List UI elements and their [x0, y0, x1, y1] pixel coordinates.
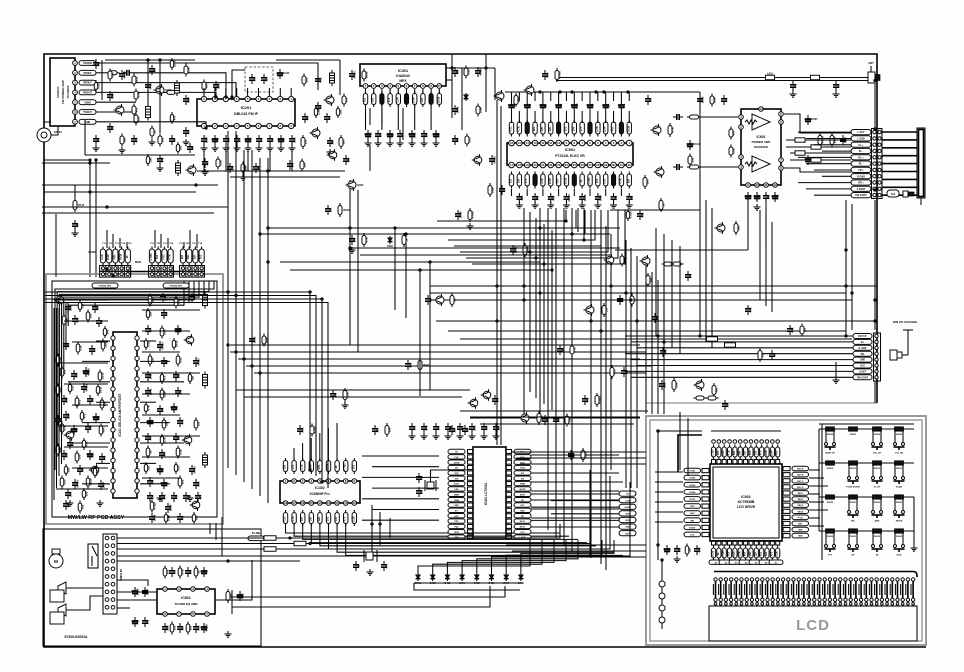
ground FM b: [159, 165, 161, 168]
wire IC402 net 3: [303, 524, 578, 539]
svg-text:XC6N99F PLL: XC6N99F PLL: [310, 492, 331, 496]
wire IC101 right pin link 8: [140, 483, 170, 485]
svg-text:4.7K: 4.7K: [135, 137, 139, 143]
svg-text:11: 11: [344, 501, 347, 505]
bus wire v16: [610, 234, 612, 470]
wire tuner up 1: [106, 230, 108, 248]
net label IC401 L15: [448, 524, 465, 528]
resistor R432: [582, 448, 584, 462]
svg-text:1K: 1K: [357, 564, 361, 567]
resistor RN31 LCD conn: [871, 581, 873, 598]
svg-text:13: 13: [327, 501, 331, 505]
capacitor C510 above IC501: [589, 101, 591, 105]
junction dot: [259, 233, 262, 236]
capacitor C119 MW/LW: [73, 370, 75, 374]
svg-text:SEG1: SEG1: [797, 493, 803, 495]
resistor R407 above IC402: [345, 458, 347, 474]
transistor Q502: [656, 168, 664, 176]
svg-text:DBL016 FM IP: DBL016 FM IP: [234, 112, 259, 116]
resistor R299 MW extra: [193, 512, 195, 524]
svg-text:47K: 47K: [731, 130, 735, 135]
resistor R285 MW extra: [189, 372, 191, 384]
pin b11 CN601: [878, 193, 881, 196]
svg-text:100: 100: [176, 299, 180, 304]
svg-text:102: 102: [509, 178, 513, 183]
pin b6 CN801: [111, 575, 115, 579]
wire bottom bus 3: [117, 476, 610, 549]
svg-text:2.2K: 2.2K: [78, 345, 82, 351]
svg-text:TWOOK: TWOOK: [83, 62, 92, 65]
pin LCD conn top 21: [818, 578, 821, 581]
wire CN602 net 3: [637, 347, 853, 349]
bus wire extra v3: [405, 234, 407, 318]
wire CN601 feed 1: [798, 131, 851, 133]
wire IC201 top pin 8: [279, 88, 281, 96]
svg-text:473: 473: [689, 273, 693, 278]
net label IC401 L6: [448, 476, 465, 480]
wire out rail3: [790, 152, 851, 154]
resistor R603: [730, 127, 732, 140]
svg-text:13: 13: [533, 141, 537, 145]
wire IC601 outL: [784, 114, 851, 133]
capacitor C443: [555, 415, 557, 419]
ground below IC201 p2: [225, 145, 227, 148]
svg-text:47K: 47K: [420, 97, 424, 102]
bus wire tuner nest 7: [68, 281, 184, 326]
pin 7 IC201 top: [223, 96, 228, 101]
module box MW/LW RF PCB ASSY: [46, 274, 223, 524]
net label IC901 R3: [792, 478, 809, 483]
svg-text:DIN CD CHANGE: DIN CD CHANGE: [893, 320, 917, 324]
pin LCD conn bottom 4: [730, 603, 733, 606]
resistor R903 above IC901: [729, 445, 731, 460]
bus wire extra h2: [280, 261, 540, 263]
wire CN602 stem down: [874, 381, 876, 403]
resistor R802 above IC801: [179, 566, 181, 579]
net label IC401 R3: [514, 460, 531, 464]
net label CN401 1: [619, 491, 636, 496]
pin 3 IC801 top: [191, 587, 196, 592]
svg-text:100P: 100P: [490, 187, 494, 193]
svg-text:100: 100: [727, 551, 731, 556]
svg-text:330: 330: [172, 625, 176, 630]
capacitor C313 under IC301: [399, 130, 401, 134]
wire net GND bottom: [96, 122, 206, 128]
capacitor C215: [351, 70, 353, 74]
ground IC501 b11: [597, 202, 599, 205]
pin 6 IC402 top: [326, 479, 331, 484]
svg-text:2.2K: 2.2K: [473, 425, 477, 431]
capacitor C150 MW/LW right: [195, 357, 197, 361]
pin LCD conn top 1: [714, 578, 717, 581]
net label IC401 R14: [514, 519, 531, 523]
svg-text:1K: 1K: [452, 298, 456, 301]
svg-text:330: 330: [764, 551, 768, 556]
pin LCD conn mid 29: [859, 598, 862, 601]
svg-text:22K: 22K: [148, 311, 152, 316]
pin 11 IC101 left: [111, 438, 115, 442]
capacitor C284 MW extra: [175, 371, 177, 375]
pin LCD conn mid 33: [880, 598, 883, 601]
svg-text:473: 473: [387, 97, 391, 102]
bus wire extra v2: [394, 228, 396, 310]
svg-text:10K: 10K: [71, 441, 75, 446]
connector CN601 frame: [872, 129, 883, 199]
bus wire mid h2: [260, 233, 530, 235]
pin LCD conn top 3: [724, 578, 727, 581]
pin 6 IC501 top: [587, 140, 593, 146]
resistor R130: [151, 126, 153, 139]
pin box IC901 top 6: [738, 460, 742, 465]
wire net MPX out A: [369, 108, 371, 125]
pin box IC901 right 4: [783, 485, 790, 489]
svg-text:C211: C211: [283, 71, 290, 75]
capacitor C159 MW/LW right: [161, 449, 163, 453]
svg-text:10/16: 10/16: [134, 76, 138, 83]
wire net MPX out B: [381, 108, 383, 125]
wire IC301 pin drop 4: [389, 89, 391, 94]
pin 14 IC401 left: [468, 519, 474, 523]
svg-text:4.7/50: 4.7/50: [149, 82, 153, 90]
svg-text:1K: 1K: [661, 203, 665, 206]
op-amp IC401 LC75341: [473, 447, 506, 538]
svg-text:4.7K: 4.7K: [180, 569, 184, 575]
capacitor C440: [299, 425, 301, 429]
svg-text:Q201: Q201: [165, 88, 172, 92]
transistor Q102: [91, 466, 99, 474]
wire IC402 net 5: [320, 524, 596, 546]
transistor Q103: [56, 296, 64, 304]
resistor R206: [159, 134, 161, 147]
resistor R435: [706, 397, 719, 399]
pin LCD conn top 13: [776, 578, 779, 581]
capacitor C821: [144, 587, 146, 591]
connector CN602 frame: [874, 333, 881, 381]
svg-text:2.2K: 2.2K: [162, 437, 166, 443]
svg-text:LCD: LCD: [796, 617, 830, 634]
svg-text:2.2K: 2.2K: [300, 464, 304, 470]
capacitor C315 under IC301: [423, 130, 425, 134]
switch SW932 key matrix: [872, 531, 874, 544]
net label L GND connector CN601: [851, 136, 871, 141]
wire out rail4: [790, 159, 851, 161]
resistor R911 above IC901: [771, 445, 773, 460]
capacitor C612: [699, 95, 701, 99]
svg-text:4.7/50: 4.7/50: [479, 68, 483, 76]
diode D9522 key matrix: [873, 495, 882, 499]
wire MW link h2-3: [142, 372, 200, 374]
junction dot: [394, 227, 397, 230]
tuning coil T204: [170, 247, 172, 266]
transistor Q205: [329, 151, 337, 159]
capacitor C111 MW/LW: [74, 315, 76, 319]
pin 14 IC501 top: [524, 140, 530, 146]
pin 31 IC401 right: [506, 466, 512, 470]
pin box IC901 top 7: [744, 460, 748, 465]
pin 34 IC401 right: [506, 450, 512, 454]
svg-text:102: 102: [690, 157, 694, 162]
svg-text:BAND: BAND: [89, 251, 96, 254]
pin a9 CN601: [873, 181, 876, 184]
svg-text:10K: 10K: [540, 126, 544, 131]
svg-text:0.01: 0.01: [467, 137, 471, 143]
wire IC601 in R: [700, 166, 738, 168]
jack J801 phone: [58, 582, 66, 594]
svg-text:ILL: ILL: [861, 342, 865, 344]
svg-text:680: 680: [347, 157, 351, 162]
pin LCD conn mid 31: [870, 598, 873, 601]
junction rail dot: [603, 91, 606, 94]
bus wire v26: [711, 208, 713, 348]
wire IC101 left pin link 2: [82, 360, 110, 362]
svg-text:100: 100: [645, 179, 649, 184]
pin 27 IC401 right: [506, 487, 512, 491]
capacitor C265 MW extra: [83, 383, 85, 387]
pin box IC901 left 8: [702, 518, 709, 522]
wire IC501 pin drop 6: [558, 189, 560, 196]
wire IC501 net drop 5: [454, 210, 601, 246]
wire IC101 right pin link 5: [140, 422, 170, 424]
svg-text:330: 330: [674, 382, 678, 387]
net label PWOUT: [79, 90, 96, 95]
wire IC501 row link 4: [542, 111, 544, 123]
resistor R109 (AGND): [135, 89, 137, 102]
pin 24 IC501 bottom: [564, 162, 570, 168]
pin box IC901 right 6: [783, 497, 790, 501]
svg-text:0.01: 0.01: [62, 479, 66, 485]
wire comb tine 4: [882, 155, 917, 157]
pin LCD conn mid 24: [833, 598, 836, 601]
svg-text:2.2K: 2.2K: [69, 491, 73, 497]
ground IC501 b9: [581, 202, 583, 205]
svg-text:0.01: 0.01: [721, 450, 725, 456]
resistor R304 under IC301: [397, 91, 399, 107]
svg-text:473: 473: [546, 417, 550, 422]
bus wire v22: [657, 280, 659, 414]
wire IC402 up 5: [327, 428, 329, 460]
junction dot 2: [451, 67, 454, 70]
bus wire v3: [321, 299, 323, 482]
wire IC501 up stub 10: [589, 92, 591, 101]
svg-text:22K: 22K: [338, 109, 342, 114]
double wire antenna rail A: [556, 77, 868, 79]
wire MW link h2-5: [142, 414, 180, 416]
LED D901: [659, 581, 665, 587]
resistor R529 below IC501: [581, 172, 583, 189]
svg-text:102: 102: [227, 137, 231, 142]
svg-text:102: 102: [199, 254, 203, 259]
pin 7 IC301: [412, 84, 417, 89]
pin 7 IC201 bottom: [267, 123, 272, 128]
resistor R610 on antenna rail: [766, 75, 775, 80]
svg-text:680: 680: [304, 77, 308, 82]
wire out rail2: [786, 146, 851, 148]
svg-text:100P: 100P: [65, 397, 69, 403]
svg-text:KEY C: KEY C: [797, 481, 804, 483]
pin LCD conn mid 32: [875, 598, 878, 601]
capacitor C295 MW extra: [191, 465, 193, 469]
capacitor C814 below IC801: [195, 623, 197, 627]
capacitor C160: [57, 415, 59, 419]
pin 7 IC801 bottom: [177, 612, 182, 617]
bus wire h5: [230, 344, 640, 346]
pin 17 IC501 bottom: [509, 162, 515, 168]
wire IC901 left link 4: [655, 501, 683, 503]
svg-text:SEL: SEL: [851, 521, 856, 523]
ground IC401 t3: [447, 433, 449, 436]
pin 11 IC501 top: [548, 140, 554, 146]
svg-text:10K: 10K: [186, 254, 190, 259]
svg-text:47K: 47K: [317, 464, 321, 469]
net label IC901 bottom 3: [729, 560, 743, 564]
capacitor C442: [544, 415, 546, 419]
net label IC901 bottom 2: [719, 560, 733, 564]
net label IC901 R5: [792, 491, 809, 496]
svg-text:17: 17: [510, 163, 514, 167]
pin LCD conn mid 11: [766, 598, 769, 601]
resistor RN8 LCD conn: [751, 581, 753, 598]
op-amp IC901 KC79538B LCD DRIVE: [710, 464, 782, 541]
resistor R522 below IC501: [526, 172, 528, 189]
resistor R441: [419, 358, 421, 372]
pin 7 IC402 top: [335, 479, 340, 484]
net label IC901 R9: [792, 515, 809, 520]
svg-text:4.7K: 4.7K: [136, 92, 140, 98]
junction dot: [583, 239, 586, 242]
resistor R261 MW extra: [79, 300, 81, 312]
net label IC901 R8: [792, 509, 809, 514]
pin b7 CN601: [878, 168, 881, 171]
transistor Q203 front end: [116, 106, 124, 114]
junction dot: [419, 269, 422, 272]
diode D9532 key matrix: [873, 529, 882, 533]
capacitor C132 MW/LW: [89, 450, 91, 454]
diode D9521 key matrix: [849, 495, 858, 499]
net label IC401 R16: [514, 530, 531, 534]
pin circle IC901 top 13: [776, 440, 780, 444]
resistor R161: [57, 384, 59, 397]
pin b7 CN801: [111, 582, 115, 586]
svg-text:22K: 22K: [743, 450, 747, 455]
net label RL - connector CN601: [851, 161, 871, 166]
resistor RN13 LCD conn: [777, 581, 779, 598]
capacitor C1b3: [185, 492, 187, 496]
ground IC501 b13: [613, 202, 615, 205]
capacitor C437: [501, 185, 503, 189]
pin LCD conn bottom 18: [803, 603, 806, 606]
switch SW930 key matrix: [825, 531, 827, 544]
svg-text:XIN: XIN: [455, 478, 459, 480]
pin a11 CN601: [873, 193, 876, 196]
resistor RN17 LCD conn: [798, 581, 800, 598]
wire MW link h5: [72, 404, 108, 406]
bus wire h17: [380, 233, 610, 235]
resistor R401 above IC402: [293, 458, 295, 474]
resistor RN32 LCD conn: [876, 581, 878, 598]
bus wire h7: [238, 358, 640, 360]
capacitor C322: [454, 105, 456, 109]
net label mid wire 2: [725, 343, 736, 347]
pin LCD conn bottom 16: [792, 603, 795, 606]
switch SW903 key matrix: [894, 429, 896, 442]
svg-text:680: 680: [188, 625, 192, 630]
pin 13 IC101 left: [111, 458, 115, 462]
resistor R920: [686, 544, 688, 557]
resistor R339 FM extra: [177, 142, 179, 154]
pin b4 CN601: [878, 149, 881, 152]
pin 4 IC402 top: [309, 479, 314, 484]
wire IC901 left link 3: [655, 491, 683, 493]
svg-text:100P: 100P: [187, 97, 191, 103]
pin 26 IC101 right: [135, 397, 139, 401]
resistor R9b6 below IC901: [745, 546, 747, 561]
capacitor C461: [619, 295, 621, 299]
resistor R428: [713, 383, 715, 397]
net label RPOUT: [79, 80, 96, 85]
capacitor C1b0: [149, 492, 151, 496]
bus wire extra v6: [583, 208, 585, 240]
pin box IC901 top 3: [722, 460, 726, 465]
resistor R901 above IC901: [718, 445, 720, 460]
net label DATA: [684, 525, 701, 530]
svg-text:KIA6043: KIA6043: [396, 74, 409, 78]
svg-text:473: 473: [134, 107, 138, 112]
wire IC101 right pin link 1: [140, 340, 156, 342]
svg-text:10K: 10K: [736, 225, 740, 230]
resistor RN18 LCD conn: [803, 581, 805, 598]
pin 7 IC401 left: [468, 482, 474, 486]
svg-text:100: 100: [161, 407, 165, 412]
wire key matrix top entry: [819, 423, 914, 425]
wire IC401 to LCD 6: [531, 499, 623, 501]
pin 3 IC301: [380, 84, 385, 89]
wire IC301 pin drop 7: [414, 89, 416, 94]
capacitor C227 below IC201: [280, 135, 282, 139]
pin 26 IC401 right: [506, 492, 512, 496]
svg-text:IC401 LC75341: IC401 LC75341: [484, 483, 488, 506]
bus wire v23: [663, 288, 665, 414]
transistor Q402: [526, 86, 534, 94]
wire speaker to amp: [44, 122, 51, 128]
pin 33 IC401 right: [506, 455, 512, 459]
tuning coil T101: [102, 247, 104, 266]
resistor R131: [185, 64, 187, 77]
pin 6 IC201 bottom: [256, 123, 261, 128]
svg-text:102: 102: [678, 547, 682, 552]
svg-text:0.01: 0.01: [603, 178, 607, 184]
svg-text:4.7/50: 4.7/50: [567, 194, 571, 202]
bus wire v24: [699, 92, 701, 336]
svg-text:4.7/50: 4.7/50: [161, 342, 165, 350]
resistor R313: [343, 94, 345, 107]
svg-text:2.2K: 2.2K: [69, 305, 73, 311]
capacitor C429: [623, 367, 625, 371]
svg-text:22K: 22K: [437, 132, 441, 137]
pin 19 IC401 right: [506, 530, 512, 534]
wire PWOUT cont: [176, 92, 216, 97]
transistor Q104: [186, 336, 194, 344]
pin b8 CN801: [111, 590, 115, 594]
ground G42: [469, 223, 471, 226]
wire IC501 net drop 1: [437, 210, 566, 221]
pin 5 PCB101: [73, 100, 78, 105]
svg-text:100: 100: [437, 425, 441, 430]
resistor R9b11 below IC901: [771, 546, 773, 561]
junction dot: [535, 257, 538, 260]
pin 3 IC402 top: [300, 479, 305, 484]
svg-text:CLK: CLK: [454, 457, 459, 459]
svg-text:473: 473: [794, 83, 798, 88]
